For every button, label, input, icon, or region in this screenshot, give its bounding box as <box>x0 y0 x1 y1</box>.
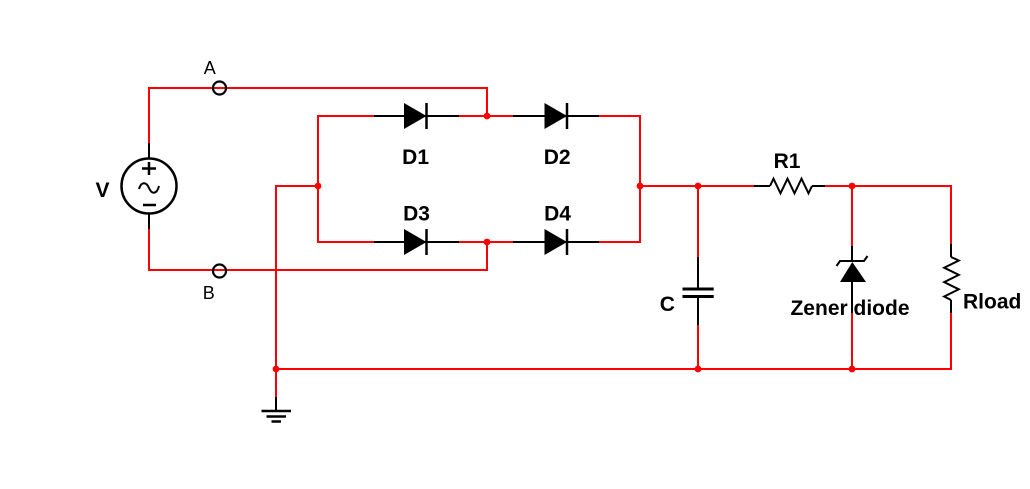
resistor Rload <box>944 244 959 313</box>
junction: capacitor bottom node <box>695 366 702 373</box>
wire: V source top to node A rail into bridge top <box>149 88 487 144</box>
junction: bridge top input node <box>484 113 491 120</box>
svg-text:D1: D1 <box>402 146 429 169</box>
wire: output rail from bridge to R1 left <box>640 185 754 187</box>
wire: bottom ground rail to Rload bottom <box>276 313 951 369</box>
label A <box>204 58 216 78</box>
junction: zener bottom node <box>849 366 856 373</box>
diode D3 <box>374 229 459 255</box>
wire: capacitor C branch bottom <box>697 324 699 369</box>
terminal B <box>213 265 226 278</box>
diode D2 <box>513 103 599 129</box>
label D3 <box>403 203 430 226</box>
wire: capacitor C branch top <box>697 186 699 258</box>
wire: bridge left vertical <box>317 115 319 243</box>
junction: bridge left mid node <box>315 183 322 190</box>
svg-text:R1: R1 <box>774 150 801 173</box>
junction: capacitor top node <box>695 183 702 190</box>
wire: bridge right vertical <box>639 115 641 243</box>
label R1 <box>774 150 801 173</box>
ground <box>262 397 292 422</box>
svg-text:D2: D2 <box>544 146 571 169</box>
label D1 <box>402 146 429 169</box>
AC voltage source V <box>122 143 177 229</box>
capacitor C <box>683 257 714 325</box>
diode D4 <box>513 229 599 255</box>
label D2 <box>544 146 571 169</box>
svg-text:D4: D4 <box>544 203 571 226</box>
label Rload <box>963 291 1021 314</box>
svg-text:D3: D3 <box>403 203 430 226</box>
svg-text:Rload: Rload <box>963 291 1021 314</box>
svg-text:A: A <box>204 58 216 78</box>
zener diode DZ <box>837 246 868 313</box>
label V <box>95 179 109 202</box>
junction: zener top node <box>849 183 856 190</box>
wire: R1 right to top-right corner down to Rload top <box>825 186 951 244</box>
label C <box>660 293 675 316</box>
svg-text:C: C <box>660 293 675 316</box>
wire: V source bottom to node B rail into bridge bottom <box>149 228 487 270</box>
svg-text:V: V <box>95 179 109 202</box>
label B <box>203 283 215 303</box>
wire: bridge top rail <box>318 115 640 117</box>
junction: bridge right output node <box>637 183 644 190</box>
svg-text:B: B <box>203 283 215 303</box>
junction: ground rail left node <box>273 366 280 373</box>
svg-text:Zener diode: Zener diode <box>790 297 909 320</box>
junction: bridge bottom input node <box>484 239 491 246</box>
resistor R1 <box>754 179 825 194</box>
label D4 <box>544 203 571 226</box>
wire: zener branch bottom <box>851 313 853 369</box>
wire: ground drop below junction <box>275 369 277 398</box>
diode D1 <box>374 103 459 129</box>
label Zener diode <box>790 297 909 320</box>
wire: bridge bottom rail <box>318 241 640 243</box>
wire: zener branch top <box>851 186 853 247</box>
wire: bridge left mid node down to ground rail <box>276 186 318 369</box>
terminal A <box>213 82 226 95</box>
